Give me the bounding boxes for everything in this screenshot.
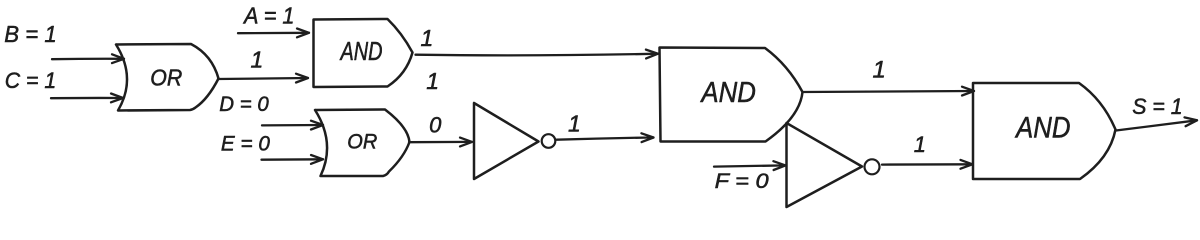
value 1 on AND3 output wire <box>873 57 886 84</box>
wire AND1 output to AND3 <box>416 50 659 59</box>
value 1 on OR1 output wire <box>251 47 264 73</box>
svg-text:E = 0: E = 0 <box>221 133 270 156</box>
svg-text:1: 1 <box>251 47 264 73</box>
wire OR1 output to AND1 <box>218 74 308 83</box>
wire input E to OR2 <box>262 155 324 164</box>
svg-text:A = 1: A = 1 <box>242 3 294 29</box>
label AND gate AND4 <box>1014 111 1070 144</box>
svg-text:D = 0: D = 0 <box>219 93 269 116</box>
svg-text:1: 1 <box>914 132 926 157</box>
label output S = 1 <box>1132 94 1182 119</box>
value 1 above AND1 output wire <box>421 25 434 51</box>
inverter NOT1 bubble <box>542 134 556 148</box>
wire OR2 output to NOT1 <box>409 138 472 147</box>
label input B = 1 <box>4 21 57 47</box>
wire AND3 output to AND4 <box>803 87 975 96</box>
label AND gate AND3 <box>700 77 756 109</box>
wire input D to OR2 <box>262 121 323 130</box>
svg-text:0: 0 <box>429 113 442 138</box>
svg-text:AND: AND <box>1014 111 1070 144</box>
svg-text:C = 1: C = 1 <box>5 68 57 93</box>
svg-text:S = 1: S = 1 <box>1132 94 1182 119</box>
value 1 below AND1 output wire <box>426 68 439 94</box>
wire NOT1 output to AND3 <box>557 133 654 142</box>
label input E = 0 <box>221 133 270 156</box>
and-gate AND4 (output) <box>973 83 1116 179</box>
label OR gate OR1 <box>150 64 182 90</box>
wire input A to AND1 <box>238 29 309 38</box>
svg-text:OR: OR <box>150 64 182 90</box>
inverter NOT2 triangle <box>787 123 863 207</box>
label input C = 1 <box>5 68 57 93</box>
svg-text:AND: AND <box>339 38 383 66</box>
svg-text:1: 1 <box>421 25 434 51</box>
svg-text:OR: OR <box>347 130 377 154</box>
label input A = 1 <box>242 3 294 29</box>
svg-text:1: 1 <box>873 57 886 84</box>
and-gate AND1 <box>314 19 413 87</box>
wire input C to OR1 <box>51 94 123 103</box>
svg-text:1: 1 <box>568 110 581 136</box>
wire output S <box>1116 117 1197 130</box>
svg-text:B = 1: B = 1 <box>4 21 57 47</box>
and-gate AND3 (large) <box>660 48 803 142</box>
svg-text:1: 1 <box>426 68 439 94</box>
svg-text:AND: AND <box>700 77 756 109</box>
label input F = 0 <box>715 170 769 193</box>
label OR gate OR2 <box>347 130 377 154</box>
or-gate OR2 <box>315 110 410 177</box>
inverter NOT1 triangle <box>474 103 539 179</box>
label AND gate AND1 <box>339 38 383 66</box>
label input D = 0 <box>219 93 269 116</box>
value 0 on OR2 output wire <box>429 113 442 138</box>
svg-text:F = 0: F = 0 <box>715 170 769 193</box>
value 1 on NOT1 output wire <box>568 110 581 136</box>
or-gate OR1 <box>116 44 219 111</box>
inverter NOT2 bubble <box>865 159 880 174</box>
value 1 on NOT2 output wire <box>914 132 926 157</box>
wire NOT2 output to AND4 <box>882 160 973 169</box>
wire input F to NOT2 <box>714 161 786 170</box>
wire input B to OR1 <box>52 54 124 63</box>
